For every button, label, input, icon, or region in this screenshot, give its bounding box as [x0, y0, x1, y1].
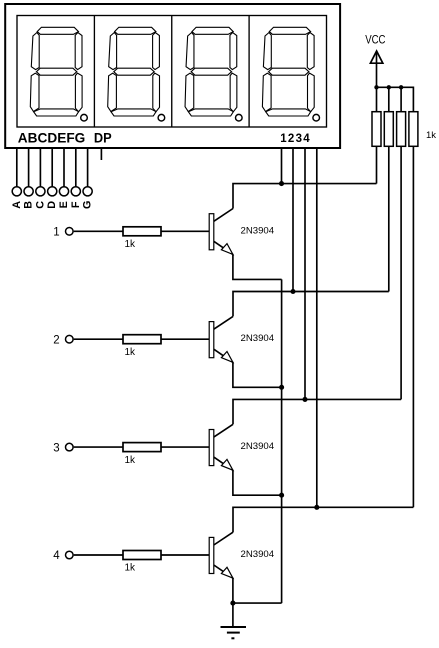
- svg-text:1k: 1k: [125, 239, 137, 250]
- wire R4 to Q4 base: [161, 554, 209, 556]
- wire Q1 collector to net1: [233, 184, 377, 209]
- wire R3 to Q3 base: [161, 446, 209, 448]
- digit cell separator 3: [248, 16, 250, 128]
- resistor R3: [123, 443, 161, 452]
- wire Q1 emitter to ground bus: [233, 254, 282, 279]
- wire Q3 emitter to ground bus: [233, 470, 282, 495]
- junction pin3-net3: [302, 397, 307, 402]
- svg-text:B: B: [23, 201, 35, 209]
- VCC power symbol: [370, 51, 382, 63]
- wire Q3 collector to net3: [233, 399, 401, 424]
- pin D wire: [51, 148, 53, 187]
- svg-text:2N3904: 2N3904: [241, 225, 275, 236]
- wire R7 bottom to net3: [400, 146, 402, 399]
- digit 1 seven-segment: [30, 27, 82, 116]
- pin G wire: [87, 148, 89, 187]
- pin F wire: [75, 148, 77, 187]
- pin B wire: [28, 148, 30, 187]
- wire Q4 collector to net4: [233, 507, 413, 532]
- pin F terminal: [71, 187, 80, 196]
- digit 2 decimal point: [158, 114, 165, 121]
- wire Q2 emitter to ground bus: [233, 362, 282, 387]
- digit cell separator 1: [93, 16, 95, 128]
- pin A wire: [16, 148, 18, 187]
- svg-text:G: G: [82, 201, 94, 209]
- junction pin2-net2: [290, 289, 295, 294]
- terminal 1: [66, 228, 74, 236]
- pin A terminal: [12, 187, 21, 196]
- svg-text:3: 3: [53, 442, 59, 454]
- svg-text:2N3904: 2N3904: [241, 333, 275, 344]
- resistor R8: [409, 112, 418, 147]
- svg-text:1k: 1k: [125, 455, 137, 466]
- wire Q4 emitter to ground: [233, 578, 282, 603]
- resistor R1: [123, 227, 161, 236]
- terminal 4: [66, 551, 74, 559]
- junction pin4-net4: [314, 505, 319, 510]
- wire emitter ground bus: [281, 279, 283, 603]
- svg-text:A: A: [11, 201, 23, 209]
- wire Q2 collector to net2: [233, 292, 389, 317]
- svg-text:2N3904: 2N3904: [241, 441, 275, 452]
- wire R5 bottom to net1: [376, 146, 378, 183]
- svg-text:1: 1: [53, 227, 59, 239]
- wire R5 top: [376, 87, 378, 111]
- junction VCC-R6: [387, 85, 391, 89]
- wire terminal 2 to R2: [74, 338, 123, 340]
- wire R7 top: [400, 87, 402, 111]
- terminal 3: [66, 443, 74, 451]
- transistor Q4: [209, 532, 233, 578]
- svg-text:1234: 1234: [280, 133, 311, 145]
- wire display pin 2: [292, 148, 294, 292]
- svg-text:VCC: VCC: [365, 34, 385, 46]
- pin C terminal: [36, 187, 45, 196]
- digit cell separator 2: [171, 16, 173, 128]
- svg-text:C: C: [34, 201, 46, 209]
- svg-text:ABCDEFG: ABCDEFG: [18, 131, 86, 146]
- wire terminal 4 to R4: [74, 554, 123, 556]
- resistor R7: [397, 112, 406, 147]
- wire VCC bus: [377, 87, 414, 111]
- svg-text:D: D: [46, 201, 58, 209]
- svg-text:1k: 1k: [125, 347, 137, 358]
- digit 2 seven-segment: [108, 27, 160, 116]
- resistor R2: [123, 335, 161, 344]
- wire ground stub: [232, 603, 234, 627]
- pin D terminal: [48, 187, 57, 196]
- svg-text:1k: 1k: [426, 130, 436, 141]
- wire display pin 4: [316, 148, 318, 508]
- svg-text:DP: DP: [94, 131, 112, 146]
- svg-text:1k: 1k: [125, 563, 137, 574]
- svg-text:2N3904: 2N3904: [241, 549, 275, 560]
- pin B terminal: [24, 187, 33, 196]
- wire display pin 3: [304, 148, 306, 400]
- wire R6 bottom to net2: [388, 146, 390, 291]
- svg-text:4: 4: [53, 550, 60, 562]
- pin G terminal: [83, 187, 92, 196]
- pin E terminal: [59, 187, 68, 196]
- junction pin1-net1: [279, 181, 284, 186]
- junction VCC-R5: [374, 85, 378, 89]
- ground symbol: [221, 627, 247, 638]
- wire R8 bottom to net4: [412, 146, 414, 507]
- display digit cells frame: [17, 16, 327, 128]
- digit 3 seven-segment: [185, 27, 237, 116]
- wire R6 top: [388, 87, 390, 111]
- pin E wire: [63, 148, 65, 187]
- svg-text:2: 2: [53, 334, 59, 346]
- wire terminal 1 to R1: [74, 230, 123, 232]
- wire R1 to Q1 base: [161, 230, 209, 232]
- terminal 2: [66, 335, 74, 343]
- digit 1 decimal point: [81, 114, 88, 121]
- resistor R5: [372, 112, 381, 147]
- wire VCC stem: [376, 52, 378, 87]
- resistor R6: [384, 112, 393, 147]
- transistor Q2: [209, 316, 233, 362]
- junction emitter2-bus: [279, 385, 284, 390]
- digit 4 seven-segment: [262, 27, 314, 116]
- junction emitter3-bus: [279, 493, 284, 498]
- svg-text:F: F: [70, 201, 82, 208]
- wire display pin 1: [281, 148, 283, 184]
- transistor Q1: [209, 209, 233, 255]
- junction emitter4-ground: [230, 601, 235, 606]
- wire R2 to Q2 base: [161, 338, 209, 340]
- pin C wire: [39, 148, 41, 187]
- display DS1 outer box: [5, 4, 340, 148]
- junction VCC-R7: [399, 85, 403, 89]
- resistor R4: [123, 551, 161, 560]
- pin DP stub wire: [100, 148, 102, 160]
- svg-text:E: E: [58, 201, 70, 208]
- digit 3 decimal point: [236, 114, 243, 121]
- wire terminal 3 to R3: [74, 446, 123, 448]
- digit 4 decimal point: [313, 114, 320, 121]
- transistor Q3: [209, 424, 233, 470]
